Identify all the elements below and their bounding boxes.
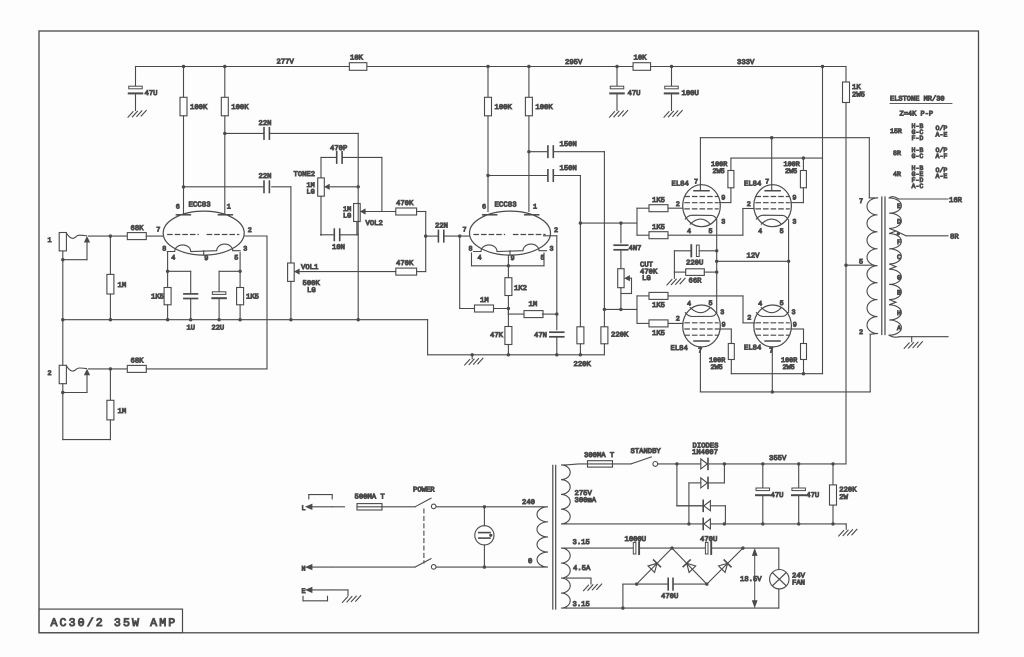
svg-text:1U: 1U (187, 325, 195, 333)
svg-text:7: 7 (859, 198, 863, 206)
svg-text:5: 5 (709, 300, 713, 308)
svg-text:240: 240 (522, 499, 535, 507)
svg-text:H: H (897, 310, 901, 317)
svg-text:2: 2 (676, 316, 680, 324)
svg-text:47U: 47U (771, 492, 784, 500)
svg-text:150N: 150N (560, 165, 577, 173)
svg-text:1K5: 1K5 (151, 294, 164, 302)
svg-text:1M: 1M (118, 408, 127, 416)
svg-text:470K: 470K (396, 260, 414, 268)
svg-text:POWER: POWER (413, 487, 435, 495)
svg-text:3.15: 3.15 (573, 539, 590, 547)
svg-text:4: 4 (687, 300, 691, 308)
svg-text:E: E (302, 588, 306, 596)
svg-text:300mA: 300mA (575, 497, 597, 505)
svg-text:F: F (897, 239, 901, 246)
svg-text:5: 5 (780, 300, 784, 308)
svg-text:LG: LG (642, 275, 651, 283)
svg-text:100U: 100U (682, 90, 699, 98)
svg-text:150N: 150N (560, 141, 577, 149)
svg-text:1M: 1M (118, 282, 127, 290)
svg-text:4: 4 (478, 255, 482, 263)
svg-text:1K5: 1K5 (652, 197, 665, 205)
svg-text:LG: LG (343, 213, 351, 221)
svg-text:2W5: 2W5 (785, 168, 797, 176)
svg-text:L: L (302, 505, 306, 513)
svg-text:470U: 470U (700, 536, 717, 544)
svg-text:16R: 16R (949, 197, 963, 205)
svg-text:4N7: 4N7 (629, 245, 642, 253)
svg-text:2: 2 (554, 227, 558, 235)
svg-text:9: 9 (721, 195, 725, 203)
svg-text:47K: 47K (490, 332, 504, 340)
svg-text:47U: 47U (806, 492, 819, 500)
svg-text:D: D (897, 218, 901, 225)
svg-text:15R: 15R (890, 128, 902, 135)
svg-text:66R: 66R (689, 278, 703, 286)
svg-text:EL84: EL84 (671, 345, 688, 353)
svg-text:8: 8 (469, 246, 473, 254)
svg-text:2: 2 (248, 227, 252, 235)
svg-text:1K2: 1K2 (514, 285, 527, 293)
svg-text:470U: 470U (661, 593, 678, 601)
svg-text:3: 3 (721, 219, 725, 227)
svg-text:2: 2 (747, 315, 751, 323)
svg-text:1K5: 1K5 (652, 302, 665, 310)
svg-text:N: N (302, 565, 306, 573)
svg-text:Z=4K P-P: Z=4K P-P (900, 111, 934, 119)
svg-text:7: 7 (463, 227, 467, 235)
svg-text:3: 3 (243, 246, 247, 254)
svg-text:22N: 22N (259, 173, 272, 181)
svg-text:9: 9 (792, 195, 796, 203)
svg-text:3: 3 (792, 219, 796, 227)
svg-text:F-D: F-D (912, 135, 924, 142)
svg-text:470P: 470P (330, 145, 347, 153)
svg-text:E: E (897, 203, 901, 210)
svg-text:277V: 277V (277, 59, 295, 67)
svg-text:10K: 10K (634, 55, 648, 63)
svg-text:5: 5 (709, 228, 713, 236)
svg-text:4: 4 (758, 300, 762, 308)
svg-text:C: C (897, 254, 901, 261)
svg-text:ECC83: ECC83 (189, 202, 211, 210)
svg-text:22N: 22N (259, 120, 272, 128)
svg-text:TONE2: TONE2 (294, 171, 316, 179)
svg-text:22U: 22U (212, 325, 225, 333)
svg-text:333V: 333V (737, 59, 755, 67)
svg-text:2W: 2W (839, 494, 848, 502)
svg-text:7: 7 (156, 227, 160, 235)
svg-text:220K: 220K (574, 361, 592, 369)
svg-text:8: 8 (162, 246, 166, 254)
svg-text:1: 1 (227, 204, 231, 212)
svg-text:2W5: 2W5 (711, 364, 723, 372)
svg-text:220K: 220K (611, 332, 629, 340)
svg-text:B: B (897, 290, 901, 297)
svg-text:0: 0 (528, 558, 532, 566)
svg-text:7: 7 (694, 179, 698, 187)
svg-text:AC30/2 35W AMP: AC30/2 35W AMP (51, 617, 178, 630)
svg-text:100K: 100K (190, 104, 208, 112)
svg-text:12V: 12V (747, 253, 761, 261)
svg-text:2: 2 (859, 329, 863, 337)
svg-text:A-F: A-F (936, 153, 948, 160)
svg-text:3: 3 (550, 246, 554, 254)
svg-text:EL84: EL84 (744, 345, 761, 353)
svg-text:4: 4 (171, 255, 175, 263)
svg-text:300MA T: 300MA T (584, 452, 615, 460)
svg-text:VOL1: VOL1 (301, 264, 318, 272)
svg-text:6: 6 (482, 204, 486, 212)
svg-text:2W5: 2W5 (783, 364, 795, 372)
svg-text:100K: 100K (535, 104, 553, 112)
svg-text:47U: 47U (145, 90, 158, 98)
svg-text:220U: 220U (686, 259, 703, 267)
svg-text:4: 4 (687, 228, 691, 236)
svg-text:1N4007: 1N4007 (692, 449, 718, 457)
svg-text:100K: 100K (495, 104, 513, 112)
svg-text:1K5: 1K5 (652, 224, 665, 232)
svg-text:295V: 295V (565, 59, 583, 67)
svg-text:47N: 47N (534, 332, 547, 340)
svg-text:8R: 8R (950, 234, 959, 242)
svg-text:10N: 10N (332, 244, 345, 252)
svg-text:100K: 100K (231, 104, 249, 112)
svg-text:G: G (897, 274, 901, 281)
svg-text:A-C: A-C (912, 183, 924, 190)
svg-text:ECC83: ECC83 (495, 202, 517, 210)
svg-text:1: 1 (533, 204, 537, 212)
svg-text:9: 9 (511, 255, 515, 263)
svg-text:EL84: EL84 (672, 180, 689, 188)
svg-text:1000U: 1000U (625, 536, 647, 544)
svg-text:2W5: 2W5 (713, 168, 725, 176)
svg-text:355V: 355V (769, 455, 787, 463)
svg-text:8R: 8R (893, 150, 901, 157)
svg-text:4R: 4R (893, 171, 901, 178)
svg-text:2: 2 (747, 201, 751, 209)
svg-text:1K5: 1K5 (652, 330, 665, 338)
svg-text:A-E: A-E (936, 173, 948, 180)
svg-text:FAN: FAN (792, 580, 805, 588)
svg-text:VOL2: VOL2 (366, 220, 383, 228)
svg-text:LG: LG (307, 287, 316, 295)
svg-text:470K: 470K (396, 200, 414, 208)
svg-text:STANDBY: STANDBY (631, 448, 662, 456)
svg-text:1: 1 (48, 237, 52, 245)
svg-text:18.5V: 18.5V (740, 576, 762, 584)
svg-text:68K: 68K (131, 358, 145, 366)
svg-text:4.5A: 4.5A (573, 565, 591, 573)
svg-text:EL84: EL84 (744, 180, 761, 188)
svg-text:7: 7 (765, 179, 769, 187)
svg-text:1M: 1M (529, 301, 538, 309)
svg-text:5: 5 (859, 259, 863, 267)
svg-text:10K: 10K (350, 55, 364, 63)
svg-text:2W5: 2W5 (852, 92, 865, 100)
svg-text:22N: 22N (435, 223, 448, 231)
svg-text:3: 3 (792, 309, 796, 317)
svg-text:500MA T: 500MA T (355, 494, 386, 502)
svg-text:9: 9 (204, 255, 208, 263)
svg-text:5: 5 (234, 255, 238, 263)
svg-text:G-C: G-C (912, 153, 924, 160)
svg-text:68K: 68K (131, 225, 145, 233)
svg-text:1K5: 1K5 (246, 294, 259, 302)
svg-text:A: A (897, 325, 901, 332)
svg-text:1M: 1M (480, 297, 489, 305)
svg-text:3: 3 (720, 309, 724, 317)
svg-text:ELSTONE MR/30: ELSTONE MR/30 (890, 95, 945, 104)
svg-text:5: 5 (780, 228, 784, 236)
svg-text:2: 2 (48, 370, 52, 378)
svg-text:A-E: A-E (936, 132, 948, 139)
svg-text:47U: 47U (628, 90, 641, 98)
svg-text:4: 4 (758, 228, 762, 236)
svg-text:LG: LG (307, 189, 315, 197)
svg-text:6: 6 (176, 204, 180, 212)
